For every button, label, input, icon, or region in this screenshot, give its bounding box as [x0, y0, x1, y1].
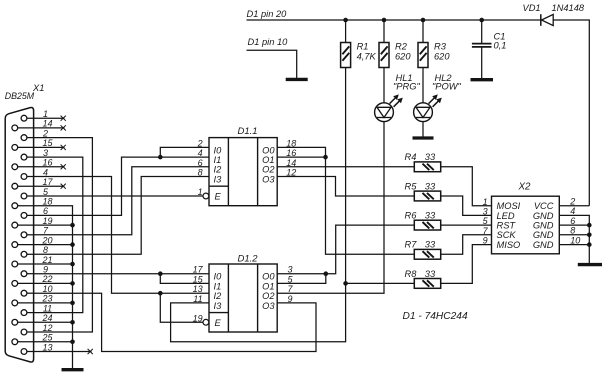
svg-text:R8: R8	[405, 269, 418, 279]
svg-text:D1.1: D1.1	[238, 126, 258, 137]
X1 pin 11	[21, 303, 52, 315]
resistor R3 620	[418, 42, 450, 68]
resistor R5 33	[405, 181, 441, 201]
svg-text:4: 4	[43, 167, 48, 177]
wire MISO net to D12 I3	[171, 283, 346, 341]
ground symbol at X1	[62, 368, 84, 371]
svg-text:I2: I2	[214, 165, 223, 175]
junction dot X2 GND bus	[587, 242, 592, 247]
svg-text:D1.2: D1.2	[238, 254, 259, 265]
wire +5V rail from D1 pin 20 to VD1 cathode	[247, 19, 541, 21]
wire X1 pin 9 to D12 I0	[34, 273, 209, 275]
svg-text:17: 17	[42, 177, 53, 187]
svg-text:R7: R7	[405, 240, 418, 250]
junction dot D11 I0/I1	[158, 155, 163, 160]
wire X1 pin 7 to D11 I2	[34, 167, 209, 235]
svg-text:1N4148: 1N4148	[552, 3, 585, 13]
wire X1 pin 3 to pin 11 loopback	[34, 157, 83, 313]
svg-text:15: 15	[42, 138, 53, 148]
wire R4 to X2 MOSI	[441, 167, 492, 206]
svg-text:33: 33	[425, 181, 436, 191]
junction dot GND bus	[70, 340, 75, 345]
svg-text:6: 6	[570, 216, 575, 226]
X1 pin 12	[21, 323, 52, 335]
svg-text:8: 8	[570, 226, 575, 236]
junction dot rail/C1	[479, 18, 484, 23]
svg-text:"PRG": "PRG"	[393, 82, 420, 92]
junction dot rail/R3	[421, 18, 426, 23]
junction dot GND bus	[70, 242, 75, 247]
svg-text:2: 2	[42, 128, 48, 138]
svg-text:33: 33	[425, 211, 436, 221]
wire D12 I0/I1 tie jog	[160, 274, 209, 284]
svg-text:LED: LED	[497, 211, 515, 221]
junction dot X2 GND bus	[587, 233, 592, 238]
wire R7 to X2 SCK	[441, 235, 492, 255]
junction dot rail/R1	[343, 18, 348, 23]
buffer D1.2 (74HC244 half)	[193, 254, 294, 333]
wire VD1 anode to X2 VCC (right edge drop)	[553, 20, 589, 206]
X1 pin 2	[21, 128, 48, 140]
X1 pin 10	[21, 284, 52, 296]
junction dot D11 O0/O1	[323, 155, 328, 160]
wire D1 pin 10 to ground	[247, 50, 297, 77]
junction dot GND bus	[70, 281, 75, 286]
svg-text:3: 3	[483, 207, 488, 217]
svg-text:"POW": "POW"	[432, 82, 462, 92]
X1 pin 8	[21, 245, 48, 257]
resistor R1 4,7K	[341, 42, 377, 68]
wire GND bus on X1 (pins 18-25)	[34, 206, 73, 368]
X1 pin 7	[21, 226, 49, 238]
svg-text:18: 18	[42, 197, 52, 207]
svg-text:1: 1	[198, 187, 203, 197]
svg-text:33: 33	[425, 240, 436, 250]
wire X1 pin 6 to D11 I0/I1	[34, 157, 161, 215]
wire R3 bottom lead to HL2	[422, 68, 424, 103]
diode VD1 1N4148	[523, 3, 585, 26]
junction dot GND bus	[70, 320, 75, 325]
svg-text:D1 pin 20: D1 pin 20	[247, 9, 288, 19]
svg-text:9: 9	[43, 265, 48, 275]
wire D11 O0 tie to O1	[277, 147, 325, 157]
svg-text:I0: I0	[214, 272, 223, 282]
junction dot D12 O0/O1	[324, 271, 329, 276]
wire D11 O2 to R4	[277, 166, 414, 168]
ground symbol at D1 pin 10	[286, 78, 308, 80]
svg-text:I2: I2	[214, 291, 223, 301]
wire R6 to X2 RST	[441, 224, 492, 226]
svg-text:R5: R5	[405, 181, 418, 191]
X1 pin 14	[12, 119, 66, 131]
svg-text:8: 8	[198, 168, 203, 178]
svg-text:12: 12	[42, 323, 52, 333]
svg-text:O0: O0	[262, 272, 275, 282]
svg-text:4,7K: 4,7K	[357, 51, 377, 61]
wire R2 bottom lead to HL1	[383, 68, 385, 103]
wire D12 O0 to R6	[277, 225, 414, 274]
buffer D1.1 (74HC244 half)	[197, 126, 297, 206]
wire D11 I1 stub	[160, 156, 209, 158]
svg-text:O2: O2	[262, 291, 275, 301]
svg-text:VCC: VCC	[534, 201, 554, 211]
svg-text:GND: GND	[533, 211, 554, 221]
svg-text:R2: R2	[395, 42, 408, 52]
wire R2 top lead	[383, 20, 385, 43]
X1 pin 20	[12, 235, 53, 247]
junction dot MISO net at R8	[343, 281, 348, 286]
svg-text:11: 11	[43, 303, 52, 313]
X1 pin 13	[21, 342, 93, 354]
svg-text:I3: I3	[214, 301, 223, 311]
junction dot GND bus	[70, 262, 75, 267]
svg-text:20: 20	[41, 235, 52, 245]
svg-text:E: E	[215, 318, 222, 328]
X1 pin 9	[21, 265, 48, 277]
svg-text:13: 13	[42, 342, 52, 352]
X1 pin 3	[21, 148, 48, 160]
resistor R7 33	[405, 240, 441, 259]
svg-text:8: 8	[43, 245, 48, 255]
svg-text:3: 3	[43, 148, 48, 158]
resistor R4 33	[405, 152, 441, 172]
wire R3 top lead	[422, 20, 424, 43]
wire HL1 cathode to D12 O2 (pin 7)	[277, 122, 384, 294]
svg-text:I3: I3	[214, 174, 223, 184]
svg-text:2: 2	[569, 197, 575, 207]
resistor R2 620	[379, 42, 411, 68]
LED HL2 "POW"	[414, 73, 462, 122]
svg-text:SCK: SCK	[497, 230, 517, 240]
svg-text:GND: GND	[533, 230, 554, 240]
svg-text:21: 21	[41, 255, 52, 265]
wire X1 pin 5 to D11 E	[34, 195, 203, 197]
X1 pin 19	[12, 216, 53, 228]
svg-text:10: 10	[42, 284, 52, 294]
svg-text:DB25M: DB25M	[5, 91, 35, 101]
svg-text:D1 pin 10: D1 pin 10	[248, 37, 289, 47]
wire D11 O3 to R5	[277, 177, 414, 197]
svg-text:22: 22	[41, 274, 52, 284]
svg-text:E: E	[215, 192, 222, 202]
svg-text:I1: I1	[214, 155, 222, 165]
ground symbol at HL2	[413, 122, 434, 138]
X1 pin 25	[12, 333, 54, 345]
svg-text:33: 33	[425, 269, 436, 279]
wire X2 VCC stub	[559, 205, 589, 207]
wire D11 O1 stub	[277, 156, 325, 158]
svg-text:14: 14	[42, 119, 52, 129]
svg-text:19: 19	[42, 216, 52, 226]
svg-text:GND: GND	[533, 240, 554, 250]
node D1 pin 20 (+5V rail label)	[247, 9, 288, 19]
svg-text:X2: X2	[518, 182, 532, 193]
X1 pin 23	[12, 294, 53, 306]
wire C1 bottom lead	[481, 48, 483, 79]
svg-text:O3: O3	[262, 301, 275, 311]
junction dot D12 I2/E	[158, 291, 163, 296]
resistor R8 33	[405, 269, 441, 289]
ground symbol at C1	[471, 78, 494, 81]
ground symbol at X2	[578, 263, 602, 266]
wire D12 E from pin 4 net	[160, 293, 203, 322]
junction dot GND bus	[70, 301, 75, 306]
svg-text:9: 9	[288, 294, 293, 304]
svg-text:9: 9	[483, 236, 488, 246]
junction dot rail/R2	[382, 18, 387, 23]
wire X1 pin 4 to D12 I2/E net	[34, 177, 161, 294]
X1 pin 5	[21, 187, 49, 199]
wire D12 O1 tie jog	[277, 274, 326, 284]
svg-text:O3: O3	[262, 174, 275, 184]
svg-text:RST: RST	[497, 221, 517, 231]
wire X1 pin 2 to pin 12 loopback	[34, 138, 93, 332]
svg-text:23: 23	[41, 294, 52, 304]
svg-text:O1: O1	[262, 281, 274, 291]
svg-text:1: 1	[483, 197, 488, 207]
svg-text:4: 4	[570, 206, 575, 216]
svg-text:I1: I1	[214, 281, 222, 291]
X1 pin 4	[21, 167, 48, 179]
svg-text:1: 1	[43, 109, 48, 119]
junction dot X2 GND bus	[587, 223, 592, 228]
svg-text:24: 24	[41, 313, 52, 323]
svg-text:R4: R4	[405, 152, 417, 162]
node D1 pin 10 (ground stub label)	[248, 37, 289, 47]
LED HL1 "PRG"	[375, 73, 421, 122]
svg-text:10: 10	[570, 235, 580, 245]
wire R5 to X2 LED	[441, 196, 492, 215]
X1 pin 6	[21, 206, 48, 218]
X1 pin 18	[12, 197, 53, 209]
svg-text:16: 16	[42, 158, 52, 168]
wire D11 O0/O1 to R7	[326, 157, 415, 254]
wire X1 pin 10 to D12 O3 (readback)	[34, 293, 316, 351]
svg-text:O0: O0	[262, 145, 275, 155]
X1 pin 1	[21, 109, 66, 121]
svg-text:6: 6	[43, 206, 48, 216]
svg-text:R6: R6	[405, 211, 418, 221]
wire D12 I2 stub	[160, 292, 209, 294]
connector X1 DB25M body	[5, 83, 45, 362]
X1 pin 24	[12, 313, 53, 325]
svg-text:0,1: 0,1	[494, 40, 507, 50]
wire R8 to X2 MISO	[346, 245, 492, 284]
X1 pin 22	[12, 274, 53, 286]
note D1 type	[403, 311, 468, 322]
X1 pin 16	[12, 158, 66, 170]
svg-text:D1 - 74HC244: D1 - 74HC244	[403, 311, 468, 322]
capacitor C1 0,1	[472, 20, 507, 50]
svg-text:MISO: MISO	[497, 240, 521, 250]
wire R1 top lead	[345, 20, 347, 43]
svg-text:25: 25	[41, 333, 53, 343]
X1 pin 15	[12, 138, 66, 150]
resistor R6 33	[405, 211, 441, 231]
svg-text:O1: O1	[262, 155, 274, 165]
connector X2 (ISP header)	[483, 182, 581, 254]
svg-text:17: 17	[193, 265, 204, 275]
svg-text:33: 33	[425, 152, 436, 162]
junction dot D12 I0/I1	[158, 271, 163, 276]
svg-text:620: 620	[395, 51, 411, 61]
wire R1 bottom / MISO pull-up net	[345, 68, 347, 284]
X1 pin 17	[12, 177, 66, 189]
svg-text:I0: I0	[214, 145, 223, 155]
svg-text:MOSI: MOSI	[497, 201, 521, 211]
wire X2 GND bus	[559, 215, 589, 264]
wire X1 pin 8 to D11 I3	[34, 177, 209, 255]
X1 pin 21	[12, 255, 53, 267]
svg-text:O2: O2	[262, 165, 275, 175]
svg-text:R3: R3	[434, 42, 447, 52]
svg-text:VD1: VD1	[523, 3, 541, 13]
wire D11 I0 tie to I1	[160, 147, 209, 157]
svg-text:R1: R1	[357, 42, 369, 52]
junction dot GND bus	[70, 223, 75, 228]
svg-text:620: 620	[434, 51, 450, 61]
svg-text:GND: GND	[533, 221, 554, 231]
svg-text:6: 6	[198, 158, 203, 168]
